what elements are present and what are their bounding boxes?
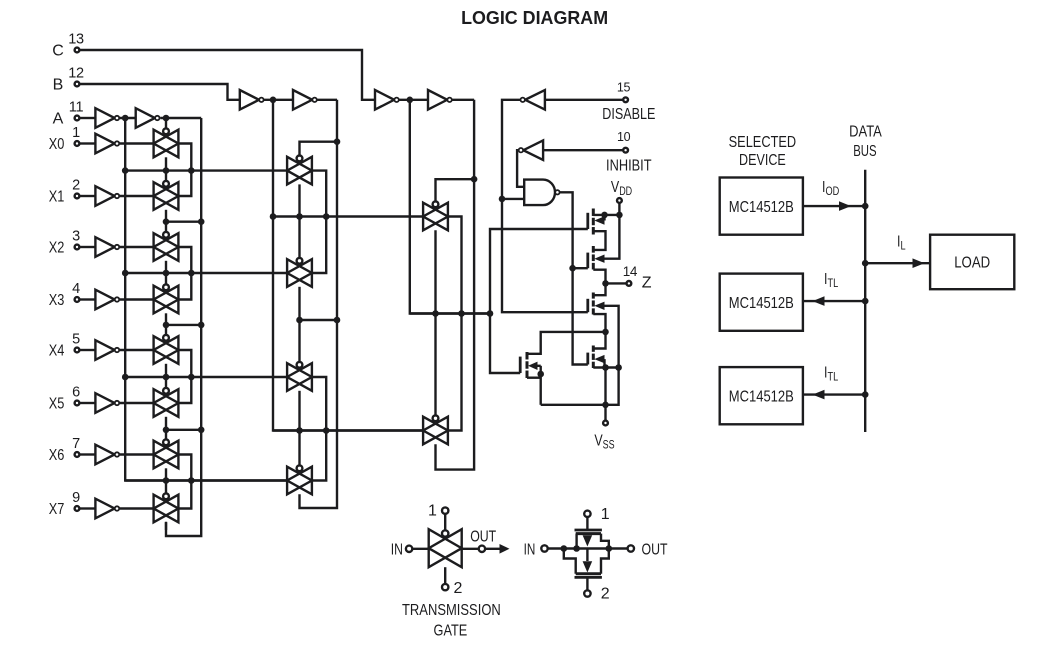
- inverter X4 input buffer: [95, 340, 119, 360]
- transmission gate TG3A: [423, 201, 448, 230]
- wire A-bar node: [120, 117, 136, 119]
- svg-text:LOAD: LOAD: [954, 255, 990, 272]
- wire C buffered to C'' rail corner: [452, 99, 474, 101]
- wire output gates vertical (mux out to T1/T5 gates): [490, 229, 588, 373]
- wire A vertical rail: [166, 118, 201, 536]
- inverter B first (output B-bar): [240, 90, 264, 110]
- block MC14512B device 2: [720, 274, 803, 331]
- block MC14512B device 1: [720, 178, 803, 235]
- junction dot DISABLE to NAND: [499, 196, 506, 203]
- wire TG5 bottom gate stub: [165, 364, 167, 377]
- wire final select/output row: [410, 312, 490, 314]
- wire ITL arrow to device 3: [803, 390, 865, 400]
- wire pair67 select/output row: [125, 479, 287, 481]
- wire TG6 top gate stub: [165, 377, 167, 390]
- wire TG7 bottom gate stub: [165, 468, 167, 480]
- transmission gate TG8 (X7): [154, 493, 179, 522]
- wire X1 inverter output to transmission gate: [120, 195, 154, 197]
- wire jog row TG2B bottom to B rail: [300, 319, 338, 321]
- wire NAND output rail: [560, 192, 588, 364]
- wire TG1 bottom gate stub: [165, 157, 167, 170]
- svg-text:TRANSMISSION: TRANSMISSION: [402, 602, 501, 619]
- wire TG4 bottom gate stub: [165, 313, 167, 325]
- junction dots T4 source row: [602, 364, 622, 371]
- wire input X6 to inverter: [80, 453, 95, 455]
- wire TG2C bottom gate stub: [298, 391, 300, 431]
- wire C-bar node: [399, 99, 428, 101]
- wire jog row TG4 bottom to A rail: [166, 324, 201, 326]
- inverter X5 input buffer: [95, 393, 119, 413]
- svg-text:5: 5: [72, 332, 80, 348]
- input terminal X3 pin 4: [49, 281, 80, 309]
- transmission gate TG7 (X6): [154, 439, 179, 468]
- wire C vertical rail: [436, 100, 475, 470]
- legend terminal 1: [428, 503, 448, 520]
- junction dots jog row 3: [163, 427, 205, 434]
- svg-text:X5: X5: [49, 396, 65, 413]
- svg-text:LOGIC DIAGRAM: LOGIC DIAGRAM: [461, 7, 608, 28]
- junction dots A row: [122, 115, 169, 122]
- wire TG2A bottom gate stub: [298, 184, 300, 216]
- wire IOD arrow to bus: [803, 201, 865, 211]
- svg-text:15: 15: [617, 81, 631, 95]
- svg-text:INHIBIT: INHIBIT: [606, 158, 652, 175]
- inverter B second (output B): [293, 90, 317, 110]
- junction dot Z node: [602, 280, 609, 287]
- svg-text:11: 11: [69, 100, 84, 116]
- input terminal C pin 13: [52, 32, 84, 60]
- junction dots pair23 row: [122, 270, 195, 277]
- wire TG2B top gate stub: [298, 217, 300, 261]
- svg-text:13: 13: [68, 32, 84, 48]
- wire X5 inverter output to transmission gate: [120, 402, 154, 404]
- junction dots pair45 row: [122, 374, 195, 381]
- junction dot C-bar rail top: [407, 97, 414, 104]
- svg-text:9: 9: [72, 490, 80, 506]
- power terminal VSS: [594, 405, 614, 452]
- wire X7 inverter output to transmission gate: [120, 507, 154, 509]
- wire input X5 to inverter: [80, 402, 95, 404]
- svg-text:MC14512B: MC14512B: [729, 295, 794, 312]
- svg-text:14: 14: [623, 264, 638, 279]
- wire VSS node verticals: [604, 368, 606, 405]
- wire INHIBIT inverter output to NAND input 1: [517, 150, 524, 187]
- svg-text:X2: X2: [49, 240, 65, 257]
- legend terminal 2: [442, 580, 463, 597]
- wire legend eq bottom-right lead: [601, 549, 609, 574]
- wire T4 body arrow lead: [603, 359, 605, 367]
- junction dots legend equivalent: [561, 545, 613, 552]
- wire T5 source to VSS: [527, 377, 541, 379]
- transmission gate TG4 (X3): [154, 284, 179, 313]
- junction dots col2 jog row: [296, 317, 340, 324]
- svg-text:2: 2: [72, 178, 80, 194]
- wire TG8 top gate stub: [165, 481, 167, 496]
- wire T1 body arrow lead: [603, 215, 605, 221]
- junction dots VDD node: [601, 212, 623, 219]
- junction dot B rail jog top: [334, 138, 341, 145]
- inverter X2 input buffer: [95, 237, 119, 257]
- wire jog row TG2 bottom to A rail: [166, 220, 201, 222]
- wire TG2A/TG2B output join vertical: [312, 171, 326, 273]
- block MC14512B device 3: [720, 367, 803, 424]
- input terminal X4 pin 5: [49, 332, 80, 360]
- wire B-bar vertical rail: [273, 100, 423, 431]
- wire pair45 select/output row: [125, 376, 287, 378]
- svg-text:X0: X0: [49, 136, 65, 153]
- inverter X0 input buffer: [95, 134, 119, 154]
- transmission gate TG2 (X1): [154, 181, 179, 210]
- wire TG2D top gate stub: [298, 431, 300, 468]
- wire TG2 top gate stub: [165, 171, 167, 184]
- wire TG2 bottom gate stub: [165, 210, 167, 222]
- wire input X3 to inverter: [80, 298, 95, 300]
- svg-text:X4: X4: [49, 343, 65, 360]
- wire X2 inverter output to transmission gate: [120, 246, 154, 248]
- junction dots quad0123 row: [270, 213, 330, 220]
- svg-text:X7: X7: [49, 501, 65, 518]
- transmission gate TG2A: [287, 156, 312, 185]
- svg-text:IN: IN: [391, 541, 403, 558]
- wire A-bar vertical rail: [125, 118, 287, 481]
- wire quad0123 select/output row: [273, 215, 423, 217]
- wire pair01 select/output row: [125, 169, 287, 171]
- inverter U-inhibit: [519, 140, 543, 160]
- wire TG1 top gate stub: [165, 118, 167, 132]
- wire jog row TG6 bottom to A rail: [166, 429, 201, 431]
- transistor T5 (NMOS pulldown): [520, 352, 537, 378]
- input terminal B pin 12: [53, 66, 84, 94]
- legend equivalent terminal IN: [524, 541, 548, 558]
- wire B vertical rail: [300, 100, 338, 508]
- svg-text:B: B: [53, 77, 64, 94]
- wire B buffered to B'' rail corner: [317, 99, 337, 101]
- svg-text:X3: X3: [49, 292, 65, 309]
- wire TG3A/TG3B output join vertical: [448, 217, 461, 431]
- wire T1 drain to T2 link: [593, 231, 605, 250]
- wire legend equivalent main line: [548, 547, 628, 549]
- wire TG2A top gate jog to B rail: [300, 142, 338, 158]
- junction dot C rail jog: [471, 176, 478, 183]
- svg-text:Z: Z: [642, 275, 652, 292]
- wire TG3 top gate stub: [165, 222, 167, 235]
- wire TG3A bottom gate stub: [434, 230, 436, 313]
- inverter X1 input buffer: [95, 186, 119, 206]
- wire T2 body tie to VDD rail: [605, 215, 620, 259]
- wire input C pin13 to buffer row: [80, 50, 375, 100]
- nand gate U-out: [524, 180, 559, 206]
- wire TG4 top gate stub: [165, 273, 167, 287]
- wire INHIBIT pin to inverter: [543, 149, 623, 151]
- junction dots jog row 1: [163, 218, 205, 225]
- legend terminal IN: [391, 541, 413, 558]
- wire TG1/TG2 output join vertical: [179, 144, 192, 197]
- wire DISABLE rail: [502, 100, 588, 312]
- block LOAD: [930, 235, 1014, 290]
- transmission gate TG2C: [287, 362, 312, 391]
- inverter X7 input buffer: [95, 499, 119, 519]
- junction dots pair67 row: [163, 477, 195, 484]
- wire legend eq top-left lead: [575, 534, 577, 549]
- wire input A pin11 to inverter: [80, 117, 95, 119]
- wire legend OUT lead: [462, 548, 479, 550]
- transmission gate TG2B: [287, 258, 312, 287]
- junction dots quad4567 row: [296, 427, 329, 434]
- junction dot B-bar rail top: [270, 97, 277, 104]
- power terminal VDD: [611, 179, 632, 215]
- svg-text:BUS: BUS: [853, 143, 876, 160]
- wire TG5 top gate stub: [165, 325, 167, 337]
- wire TG3/TG4 output join vertical: [179, 247, 192, 300]
- wire VSS row: [541, 404, 606, 406]
- terminal DISABLE pin 15: [602, 81, 655, 124]
- junction dot VSS node: [602, 402, 609, 409]
- input terminal X6 pin 7: [49, 436, 80, 464]
- input terminal X5 pin 6: [49, 385, 80, 413]
- wire T3 source to midpoint node: [593, 314, 605, 348]
- wire TG6 bottom gate stub: [165, 417, 167, 430]
- junction dots jog row 2: [163, 322, 205, 329]
- wire NAND input 2: [502, 198, 524, 200]
- legend equivalent terminal 1: [584, 506, 610, 530]
- junction dot NAND rail to T2 gate: [569, 265, 576, 272]
- wire X3 inverter output to transmission gate: [120, 298, 154, 300]
- input terminal X7 pin 9: [49, 490, 80, 518]
- svg-text:OUT: OUT: [470, 529, 496, 546]
- transistor T1 (PMOS upper): [588, 209, 605, 235]
- legend equivalent terminal 2: [584, 577, 610, 602]
- wire input B pin12 to buffer row: [80, 84, 240, 100]
- transistor T2 (PMOS lower): [588, 246, 605, 270]
- svg-text:DEVICE: DEVICE: [739, 152, 786, 169]
- svg-text:DISABLE: DISABLE: [602, 106, 655, 123]
- wire pair23 select/output row: [125, 272, 287, 274]
- junction dots final row: [432, 310, 493, 317]
- wire quad4567 select/output row: [273, 429, 423, 431]
- transmission gate TG1 (X0): [154, 128, 179, 157]
- wire TG2B bottom gate stub: [298, 287, 300, 320]
- legend terminal OUT: [470, 529, 496, 553]
- wire X0 inverter output to transmission gate: [120, 142, 154, 144]
- wire TG7 top gate stub: [165, 430, 167, 442]
- wire C-bar vertical rail: [410, 100, 490, 314]
- wire input X4 to inverter: [80, 349, 95, 351]
- legend transmission gate symbol: [429, 529, 462, 567]
- svg-text:7: 7: [72, 436, 80, 452]
- svg-text:1: 1: [72, 125, 80, 141]
- wire input X0 to inverter: [80, 142, 95, 144]
- svg-text:X1: X1: [49, 189, 65, 206]
- input terminal X0 pin 1: [49, 125, 80, 153]
- junction dot T3/T4 midpoint: [602, 329, 609, 336]
- inverter X3 input buffer: [95, 290, 119, 310]
- svg-text:10: 10: [617, 130, 631, 144]
- svg-text:MC14512B: MC14512B: [729, 388, 794, 405]
- wire TG8 bottom gate stub: [165, 522, 167, 530]
- svg-text:MC14512B: MC14512B: [729, 199, 794, 216]
- junction dots on data bus: [862, 203, 869, 398]
- junction dots pair01 row: [122, 167, 195, 174]
- svg-text:IN: IN: [524, 541, 536, 558]
- wire TG2C top gate stub: [298, 320, 300, 364]
- transmission gate TG6 (X5): [154, 388, 179, 417]
- wire A buffered to A'' rail corner: [160, 117, 201, 119]
- wire T3 body arrow lead to VSS rail: [605, 306, 619, 368]
- inverter X6 input buffer: [95, 445, 119, 465]
- svg-text:SELECTED: SELECTED: [729, 134, 797, 151]
- wire legend eq top-right lead: [601, 534, 609, 549]
- wire TG5/TG6 output join vertical: [179, 350, 192, 403]
- wire TG7/TG8 output join vertical: [179, 455, 192, 509]
- transistor T3 (NMOS upper): [588, 293, 605, 315]
- wire T5 drain to midpoint: [527, 332, 606, 354]
- transmission gate TG3 (X2): [154, 232, 179, 261]
- transistor T4 (NMOS lower): [588, 346, 605, 369]
- wire TG3B top gate stub: [434, 314, 436, 418]
- wire DATA BUS line: [864, 170, 866, 432]
- wire IL arrow bus to load: [865, 258, 930, 268]
- inverter C first (output C-bar): [375, 90, 399, 110]
- inverter C second (output C): [428, 90, 452, 110]
- legend equivalent NMOS (bottom device): [575, 549, 602, 578]
- wire input X7 to inverter: [80, 507, 95, 509]
- wire legend eq bottom-left lead: [564, 549, 576, 574]
- wire legend TG control 2 stub: [444, 567, 446, 584]
- legend equivalent PMOS (top device): [575, 530, 602, 547]
- wire legend IN lead: [412, 548, 429, 550]
- wire ITL arrow to device 2: [803, 296, 865, 306]
- wire T2 drain to Z node: [593, 270, 605, 296]
- input terminal X2 pin 3: [49, 229, 80, 257]
- output terminal Z pin 14: [606, 264, 652, 292]
- inverter A first (output A-bar): [95, 108, 119, 128]
- svg-text:4: 4: [72, 281, 80, 297]
- wire TG2C/TG2D output join vertical: [312, 377, 326, 481]
- svg-text:C: C: [52, 43, 64, 60]
- svg-text:A: A: [53, 111, 64, 128]
- svg-text:2: 2: [601, 586, 610, 603]
- wire T2 gate lead: [573, 267, 588, 269]
- wire T5 body arrow lead: [538, 365, 541, 367]
- legend arrow to equivalent circuit: [485, 544, 509, 554]
- svg-text:6: 6: [72, 385, 80, 401]
- wire T4 source lead / VSS node row: [593, 366, 618, 368]
- wire TG3A top gate jog to C rail: [436, 179, 475, 204]
- svg-text:OUT: OUT: [642, 541, 668, 558]
- transmission gate TG5 (X4): [154, 335, 179, 364]
- svg-text:1: 1: [428, 503, 437, 520]
- legend equivalent terminal OUT: [628, 541, 668, 558]
- svg-text:X6: X6: [49, 447, 65, 464]
- junction dot T5 source: [537, 371, 544, 378]
- inverter U-disable: [521, 90, 545, 110]
- wire input X2 to inverter: [80, 246, 95, 248]
- terminal INHIBIT pin 10: [606, 130, 652, 175]
- wire X4 inverter output to transmission gate: [120, 349, 154, 351]
- wire TG3 bottom gate stub: [165, 261, 167, 273]
- wire T1 source lead to VDD: [593, 214, 619, 216]
- svg-text:3: 3: [72, 229, 80, 245]
- svg-text:12: 12: [68, 66, 84, 82]
- wire input X1 to inverter: [80, 195, 95, 197]
- svg-text:2: 2: [454, 580, 463, 597]
- wire X6 inverter output to transmission gate: [120, 453, 154, 455]
- wire DISABLE pin to inverter: [545, 99, 623, 101]
- svg-text:DATA: DATA: [849, 124, 882, 141]
- input terminal X1 pin 2: [49, 178, 80, 206]
- transmission gate TG2D: [287, 465, 312, 494]
- input terminal A pin 11: [53, 100, 84, 128]
- transmission gate TG3B: [423, 415, 448, 444]
- svg-text:GATE: GATE: [434, 623, 468, 640]
- wire B-bar node: [264, 99, 293, 101]
- wire legend TG control 1 stub: [444, 514, 446, 535]
- inverter A second (output A): [136, 108, 160, 128]
- svg-text:1: 1: [601, 506, 610, 523]
